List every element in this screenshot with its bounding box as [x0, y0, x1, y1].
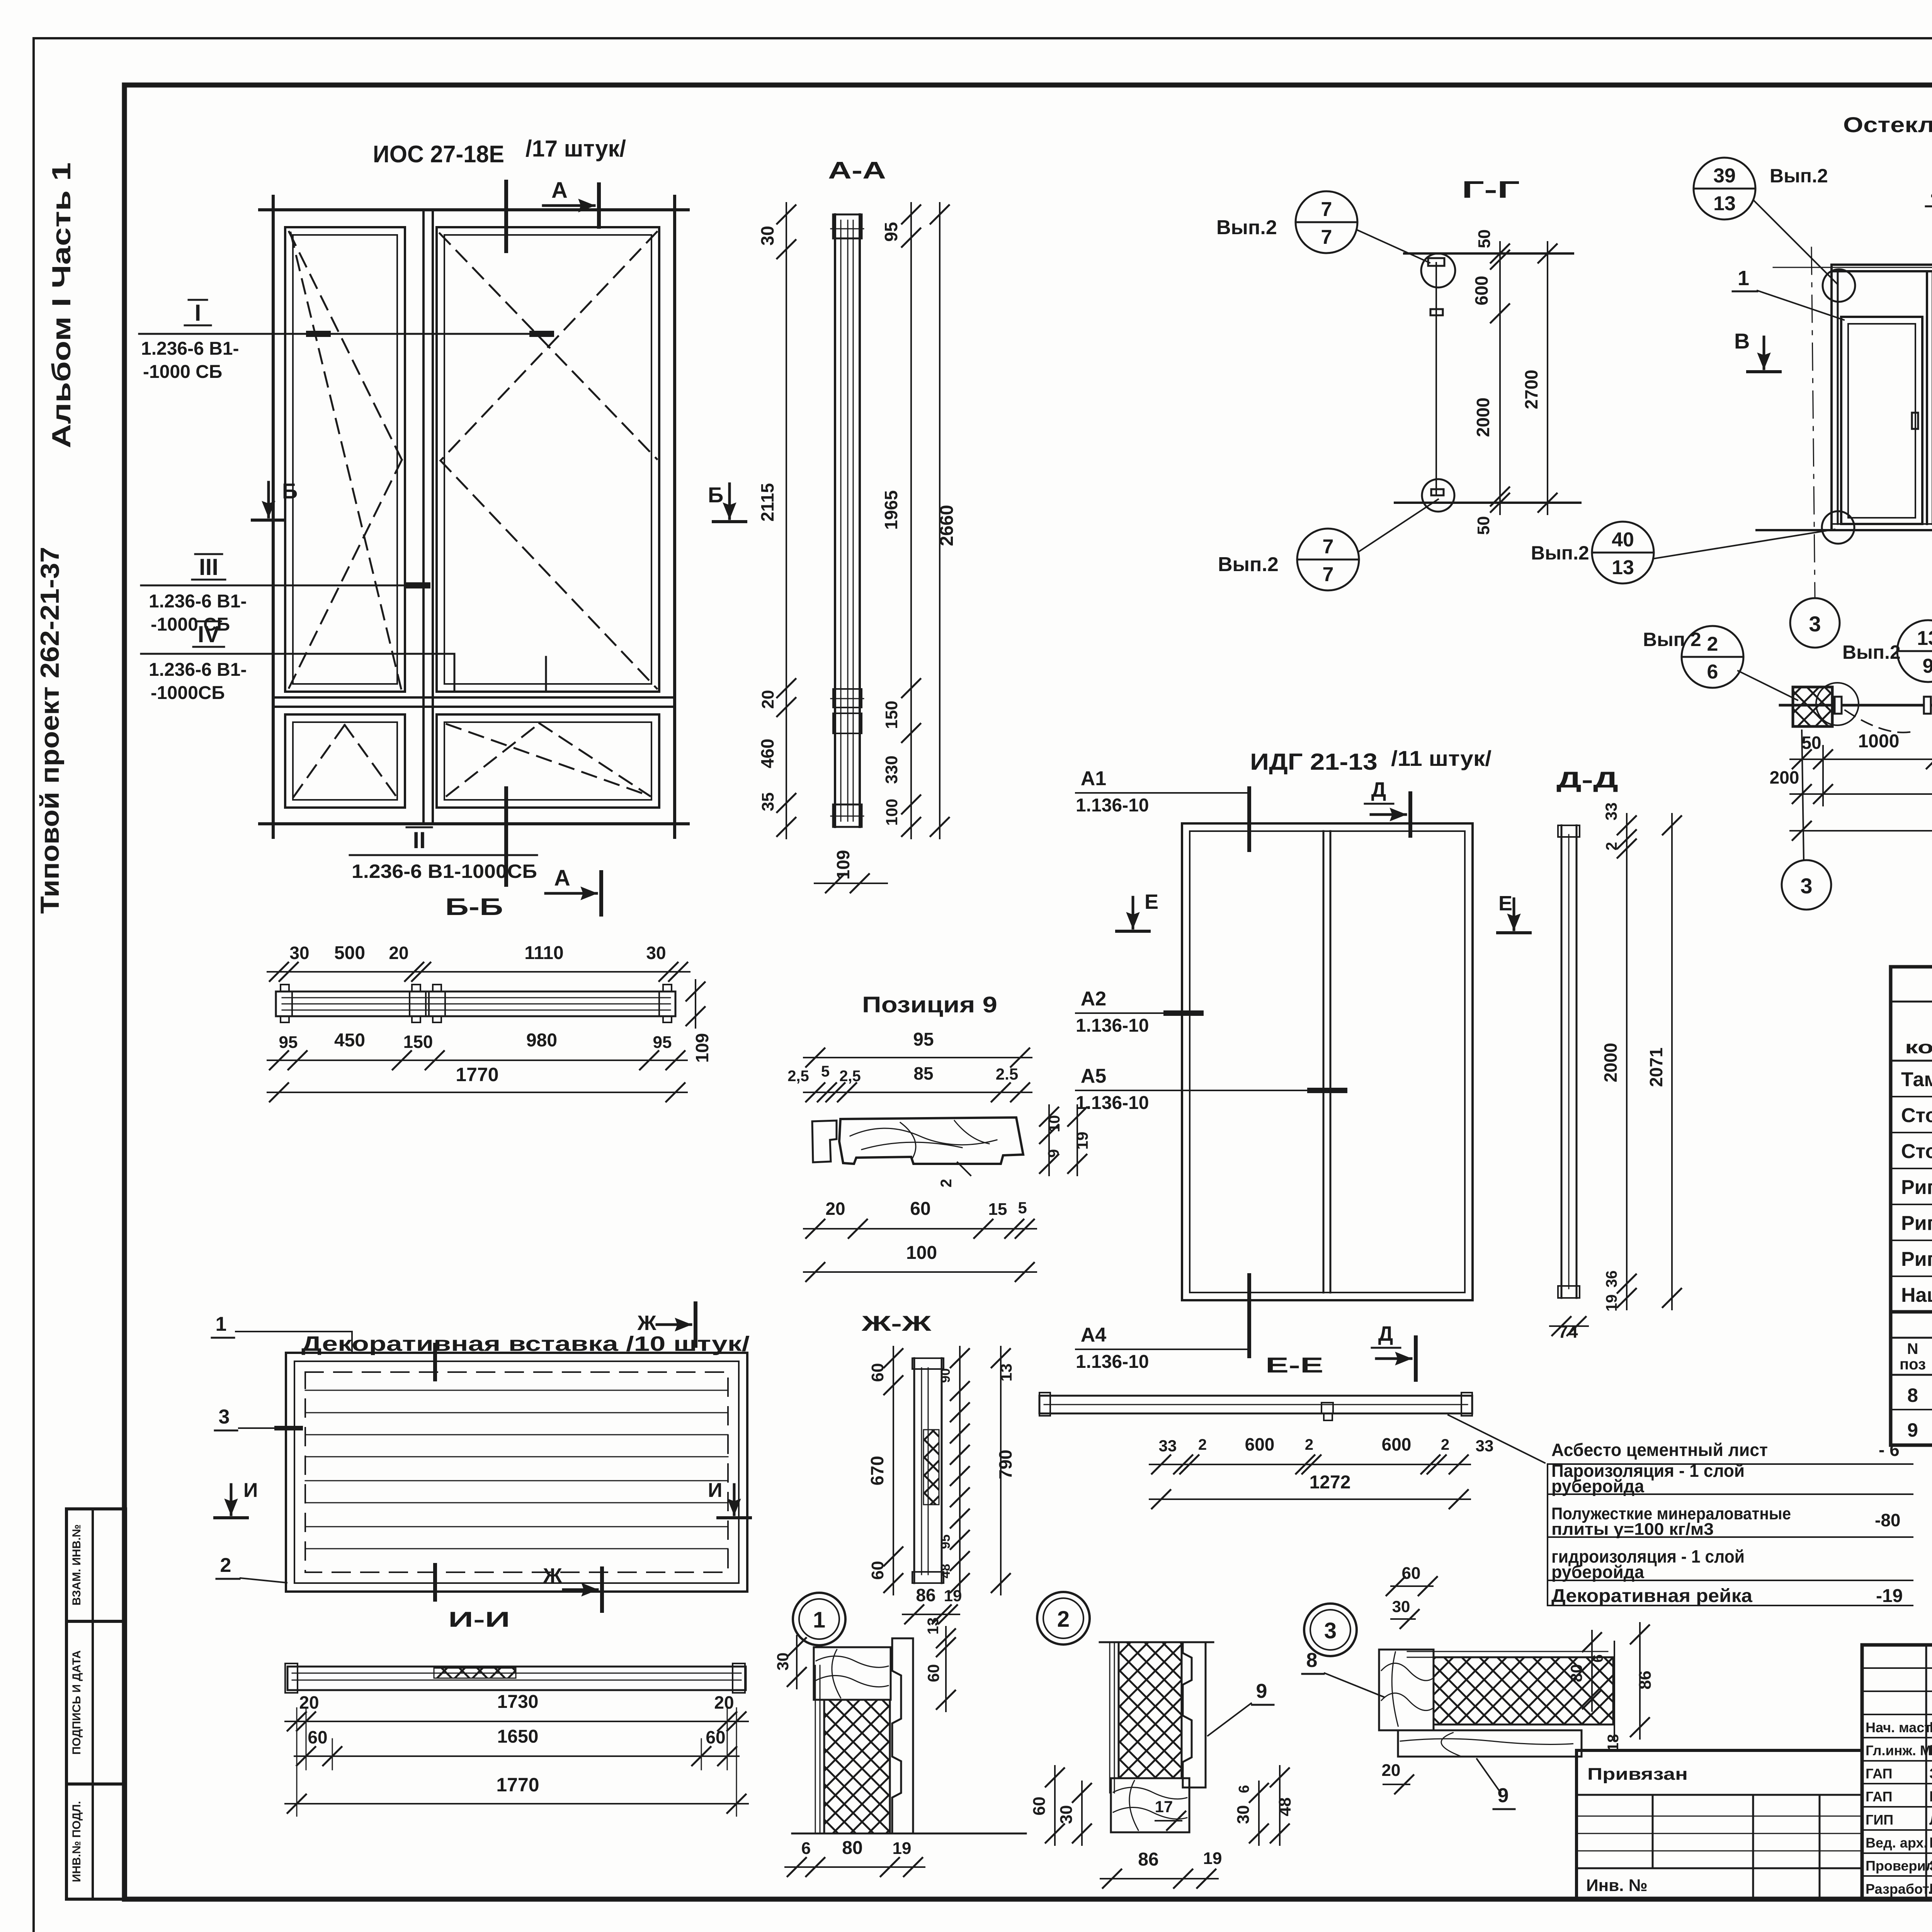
svg-text:790: 790: [995, 1450, 1015, 1480]
svg-text:Ригель: Ригель: [1901, 1176, 1932, 1199]
svg-text:86: 86: [916, 1585, 935, 1605]
svg-text:Нач. маст: Нач. маст: [1866, 1719, 1931, 1735]
svg-text:Разработ.: Разработ.: [1866, 1881, 1932, 1897]
svg-text:19: 19: [944, 1587, 962, 1605]
svg-text:600: 600: [1382, 1434, 1412, 1454]
svg-text:Ж-Ж: Ж-Ж: [861, 1311, 931, 1335]
svg-text:Ленточников: Ленточников: [1929, 1812, 1932, 1828]
svg-text:85: 85: [913, 1063, 933, 1083]
svg-text:Нащельник: Нащельник: [1901, 1284, 1932, 1306]
svg-text:13: 13: [1612, 556, 1634, 579]
svg-text:ИОС 27-18Е: ИОС 27-18Е: [373, 141, 504, 168]
svg-text:2: 2: [220, 1554, 231, 1577]
svg-text:Проверил: Проверил: [1866, 1858, 1932, 1874]
svg-text:60: 60: [868, 1363, 887, 1382]
svg-text:Д: Д: [1371, 778, 1386, 801]
svg-text:3: 3: [219, 1406, 230, 1428]
svg-text:33: 33: [1602, 803, 1620, 821]
svg-text:90: 90: [938, 1368, 953, 1383]
svg-text:2: 2: [938, 1179, 955, 1187]
svg-text:А: А: [551, 178, 568, 203]
svg-text:48: 48: [1276, 1798, 1294, 1816]
svg-text:9: 9: [1907, 1419, 1918, 1441]
svg-text:30: 30: [1234, 1805, 1253, 1824]
svg-text:3: 3: [1800, 874, 1812, 898]
svg-text:150: 150: [882, 701, 901, 729]
svg-text:А4: А4: [1081, 1324, 1107, 1346]
svg-text:Б: Б: [708, 483, 723, 507]
svg-text:А5: А5: [1081, 1065, 1106, 1087]
svg-text:86: 86: [1636, 1671, 1655, 1690]
svg-text:Б: Б: [282, 479, 298, 503]
svg-text:Типовой проект 262-21-37: Типовой проект 262-21-37: [35, 547, 65, 914]
svg-text:Д-Д: Д-Д: [1556, 767, 1618, 793]
svg-text:330: 330: [882, 755, 901, 784]
svg-text:60: 60: [1030, 1797, 1049, 1816]
svg-text:7: 7: [1323, 536, 1334, 558]
svg-text:Вед. арх.: Вед. арх.: [1866, 1835, 1927, 1851]
svg-text:2000: 2000: [1600, 1043, 1621, 1082]
svg-text:600: 600: [1245, 1434, 1275, 1454]
svg-text:III: III: [199, 554, 218, 580]
svg-text:18: 18: [1605, 1734, 1622, 1752]
svg-text:48: 48: [938, 1564, 953, 1578]
svg-text:7: 7: [1323, 563, 1334, 586]
svg-text:Кричевский: Кричевский: [1929, 1743, 1932, 1759]
svg-text:Б-Б: Б-Б: [445, 894, 503, 920]
svg-text:20: 20: [1382, 1761, 1401, 1780]
svg-text:2: 2: [1198, 1436, 1207, 1453]
svg-text:1.136-10: 1.136-10: [1076, 1093, 1149, 1113]
svg-text:6: 6: [1236, 1785, 1252, 1793]
svg-text:1.236-6 В1-: 1.236-6 В1-: [149, 591, 247, 612]
svg-text:9: 9: [1923, 655, 1932, 677]
svg-text:А2: А2: [1081, 988, 1106, 1010]
svg-text:Полякова: Полякова: [1929, 1881, 1932, 1897]
svg-text:Вып 2: Вып 2: [1643, 629, 1701, 650]
svg-text:Е: Е: [1145, 890, 1158, 913]
svg-text:Стойка: Стойка: [1901, 1140, 1932, 1163]
svg-text:IV: IV: [198, 621, 220, 647]
svg-text:8: 8: [1306, 1649, 1318, 1672]
svg-text:9: 9: [1256, 1680, 1267, 1702]
svg-text:100: 100: [883, 799, 901, 826]
svg-text:33: 33: [1476, 1437, 1494, 1455]
svg-text:13: 13: [925, 1617, 942, 1635]
svg-text:2660: 2660: [937, 505, 957, 546]
svg-text:100: 100: [906, 1243, 937, 1263]
svg-text:60: 60: [924, 1664, 942, 1682]
svg-text:15: 15: [988, 1200, 1007, 1219]
svg-text:40: 40: [1612, 529, 1634, 551]
svg-text:1.236-6 В1-: 1.236-6 В1-: [149, 660, 247, 680]
svg-text:7: 7: [1321, 198, 1332, 221]
svg-text:А-А: А-А: [828, 157, 886, 184]
svg-text:6: 6: [801, 1839, 811, 1858]
svg-text:9: 9: [1498, 1784, 1509, 1807]
svg-text:Асбесто цементный лист: Асбесто цементный лист: [1551, 1440, 1768, 1460]
svg-text:-19: -19: [1876, 1586, 1903, 1606]
svg-text:500: 500: [334, 943, 365, 963]
svg-text:50: 50: [1475, 230, 1494, 248]
svg-text:95: 95: [653, 1033, 672, 1052]
svg-text:980: 980: [526, 1030, 557, 1051]
svg-text:Шестопалов: Шестопалов: [1929, 1719, 1932, 1736]
svg-text:Зарецкий: Зарецкий: [1929, 1858, 1932, 1874]
svg-text:Стойка: Стойка: [1901, 1104, 1932, 1127]
svg-text:1.136-10: 1.136-10: [1076, 795, 1149, 816]
svg-text:670: 670: [867, 1456, 887, 1486]
svg-text:Гл.инж. М.: Гл.инж. М.: [1866, 1743, 1932, 1759]
svg-text:1.236-6 В1-: 1.236-6 В1-: [141, 338, 239, 359]
svg-text:Вып.2: Вып.2: [1842, 641, 1901, 663]
svg-text:35: 35: [759, 793, 777, 811]
svg-text:95: 95: [881, 222, 901, 241]
svg-text:Альбом I Часть 1: Альбом I Часть 1: [47, 162, 76, 448]
svg-text:2: 2: [1707, 633, 1718, 655]
svg-text:И: И: [243, 1479, 258, 1502]
svg-text:руберойда: руберойда: [1551, 1476, 1644, 1496]
svg-text:1965: 1965: [881, 490, 901, 530]
svg-text:/11 штук/: /11 штук/: [1391, 746, 1492, 770]
svg-text:5: 5: [821, 1063, 830, 1080]
svg-text:95: 95: [913, 1029, 934, 1050]
svg-text:19: 19: [1073, 1132, 1091, 1150]
svg-text:8: 8: [1907, 1384, 1918, 1406]
svg-text:50: 50: [1801, 733, 1821, 753]
svg-text:39: 39: [1713, 165, 1736, 187]
svg-text:19: 19: [1603, 1294, 1620, 1312]
svg-text:13: 13: [1917, 627, 1932, 650]
svg-text:150: 150: [403, 1032, 433, 1052]
svg-text:ИНВ.№ ПОДЛ.: ИНВ.№ ПОДЛ.: [70, 1801, 83, 1882]
svg-text:Остекленная: Остекленная: [1843, 112, 1932, 137]
svg-text:1000: 1000: [1858, 731, 1900, 752]
svg-text:13: 13: [997, 1364, 1015, 1382]
svg-text:30: 30: [1392, 1597, 1410, 1616]
svg-text:-1000СБ: -1000СБ: [151, 683, 225, 703]
svg-text:Ж: Ж: [637, 1311, 657, 1335]
svg-text:20: 20: [825, 1199, 845, 1219]
svg-text:ИДГ 21-13: ИДГ 21-13: [1250, 749, 1378, 775]
svg-text:2700: 2700: [1521, 370, 1541, 409]
svg-text:2,5: 2,5: [787, 1068, 809, 1085]
svg-text:2: 2: [1603, 842, 1620, 850]
svg-text:80: 80: [1567, 1664, 1585, 1682]
svg-text:ГАП: ГАП: [1866, 1789, 1893, 1804]
svg-text:19: 19: [1203, 1849, 1222, 1868]
svg-text:Ж: Ж: [543, 1564, 563, 1587]
svg-text:ГАП: ГАП: [1866, 1765, 1893, 1781]
svg-text:1770: 1770: [456, 1064, 498, 1085]
svg-text:10: 10: [1046, 1115, 1063, 1133]
svg-text:Зарецкий: Зарецкий: [1929, 1765, 1932, 1782]
svg-text:ПОДПИСЬ И ДАТА: ПОДПИСЬ И ДАТА: [70, 1650, 83, 1755]
svg-text:30: 30: [757, 226, 777, 245]
svg-text:74: 74: [1558, 1321, 1578, 1342]
svg-text:60: 60: [868, 1561, 887, 1580]
svg-text:А1: А1: [1081, 767, 1106, 790]
svg-text:30: 30: [646, 943, 666, 963]
svg-text:30: 30: [289, 943, 309, 963]
svg-text:9: 9: [1045, 1149, 1062, 1158]
svg-text:13: 13: [1713, 192, 1736, 215]
svg-text:1730: 1730: [497, 1692, 539, 1712]
svg-text:2115: 2115: [757, 483, 777, 522]
svg-text:Позиция 9: Позиция 9: [862, 992, 997, 1017]
svg-text:А: А: [554, 866, 570, 891]
svg-text:3: 3: [1809, 612, 1821, 636]
svg-text:1.136-10: 1.136-10: [1076, 1015, 1149, 1036]
svg-text:Полякова: Полякова: [1929, 1835, 1932, 1851]
svg-text:ВЗАМ. ИНВ.№: ВЗАМ. ИНВ.№: [70, 1524, 83, 1605]
svg-text:Г-Г: Г-Г: [1462, 177, 1520, 203]
svg-text:1110: 1110: [524, 943, 563, 963]
svg-text:Тамбурный блок: Тамбурный блок: [1901, 1068, 1932, 1091]
svg-text:7: 7: [1321, 226, 1332, 248]
svg-text:30: 30: [1057, 1805, 1076, 1824]
svg-text:6: 6: [1707, 661, 1718, 683]
svg-text:Привязан: Привязан: [1587, 1765, 1688, 1784]
svg-text:Ригель: Ригель: [1901, 1212, 1932, 1235]
svg-text:1.136-10: 1.136-10: [1076, 1352, 1149, 1372]
svg-text:33: 33: [1159, 1437, 1177, 1455]
svg-text:1.236-6 В1-1000СБ: 1.236-6 В1-1000СБ: [352, 861, 537, 882]
svg-text:руберойда: руберойда: [1551, 1562, 1644, 1582]
svg-text:60: 60: [706, 1727, 725, 1747]
svg-text:2.5: 2.5: [996, 1065, 1018, 1083]
svg-text:95: 95: [279, 1033, 298, 1052]
svg-text:II: II: [413, 827, 425, 853]
svg-text:Е-Е: Е-Е: [1265, 1353, 1323, 1377]
svg-text:60: 60: [910, 1199, 930, 1219]
svg-text:2000: 2000: [1473, 398, 1493, 437]
svg-text:36: 36: [1603, 1270, 1620, 1288]
svg-text:200: 200: [1770, 767, 1799, 787]
svg-text:1: 1: [1738, 267, 1749, 290]
svg-text:Вып.2: Вып.2: [1216, 216, 1277, 239]
svg-text:Вып.2: Вып.2: [1770, 165, 1828, 187]
svg-text:20: 20: [299, 1692, 319, 1713]
svg-text:20: 20: [389, 943, 408, 963]
svg-text:2071: 2071: [1646, 1048, 1666, 1087]
svg-text:Инв. №: Инв. №: [1586, 1876, 1648, 1895]
svg-text:109: 109: [692, 1033, 712, 1063]
svg-text:20: 20: [759, 690, 777, 709]
svg-text:450: 450: [334, 1030, 365, 1051]
svg-text:Вып.2: Вып.2: [1531, 542, 1589, 564]
svg-text:-80: -80: [1875, 1510, 1900, 1530]
svg-text:600: 600: [1471, 276, 1492, 306]
svg-text:2,5: 2,5: [839, 1068, 861, 1085]
svg-text:1: 1: [216, 1313, 227, 1335]
svg-text:конструкции: конструкции: [1905, 1037, 1932, 1057]
svg-text:20: 20: [714, 1692, 734, 1713]
svg-text:Д: Д: [1378, 1322, 1393, 1345]
svg-text:ГИП: ГИП: [1866, 1812, 1893, 1828]
svg-text:Вып.2: Вып.2: [1218, 553, 1279, 576]
svg-text:N: N: [1907, 1340, 1918, 1357]
svg-text:60: 60: [308, 1727, 327, 1747]
svg-text:86: 86: [1138, 1849, 1158, 1870]
svg-text:19: 19: [893, 1839, 912, 1858]
svg-text:/17 штук/: /17 штук/: [526, 136, 626, 162]
svg-text:2: 2: [1057, 1607, 1070, 1632]
svg-text:поз: поз: [1900, 1356, 1926, 1373]
svg-text:1272: 1272: [1310, 1472, 1351, 1493]
svg-text:Декоративная рейка: Декоративная рейка: [1551, 1586, 1752, 1606]
svg-text:В: В: [1734, 329, 1750, 353]
svg-text:плиты γ=100 кг/м3: плиты γ=100 кг/м3: [1551, 1520, 1714, 1539]
svg-text:2: 2: [1305, 1436, 1313, 1453]
svg-text:И: И: [708, 1479, 722, 1502]
svg-text:3: 3: [1324, 1618, 1337, 1643]
svg-text:-1000 СБ: -1000 СБ: [143, 362, 222, 382]
svg-text:1: 1: [813, 1607, 825, 1633]
svg-text:И-И: И-И: [448, 1607, 510, 1631]
svg-text:5: 5: [1018, 1199, 1027, 1217]
svg-text:60: 60: [1402, 1564, 1421, 1583]
svg-text:1650: 1650: [497, 1726, 539, 1747]
svg-text:17: 17: [1155, 1798, 1173, 1816]
svg-text:95: 95: [938, 1534, 953, 1549]
svg-text:460: 460: [757, 739, 777, 769]
svg-text:Ригель: Ригель: [1901, 1248, 1932, 1270]
svg-text:2: 2: [1441, 1436, 1449, 1453]
svg-text:50: 50: [1474, 516, 1493, 535]
svg-text:Шейнфейн: Шейнфейн: [1929, 1789, 1932, 1805]
svg-text:6: 6: [1590, 1654, 1606, 1662]
svg-text:I: I: [195, 300, 201, 326]
svg-text:Е: Е: [1498, 892, 1512, 915]
svg-text:1770: 1770: [496, 1774, 539, 1796]
svg-text:80: 80: [842, 1838, 862, 1858]
